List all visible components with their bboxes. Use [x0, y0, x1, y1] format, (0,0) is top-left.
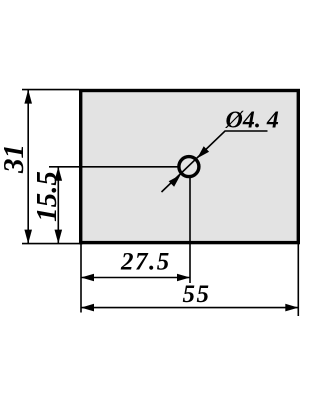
- extension line plate right, below: [297, 244, 299, 316]
- leader arrowhead NE (points to hole from upper right): [197, 146, 209, 158]
- svg-text:31: 31: [0, 144, 30, 174]
- extension line hole center vertical: [189, 176, 191, 283]
- dimension line 55 (horizontal): [81, 307, 298, 309]
- leader line for hole diameter: [162, 131, 268, 192]
- dimension line 31 (vertical, left): [27, 90, 29, 244]
- extension line top (left of plate, top edge): [22, 89, 79, 91]
- arrowhead 55 left: [81, 304, 94, 312]
- arrowhead 31 bottom: [24, 230, 32, 244]
- arrowhead 27.5 left: [81, 274, 94, 282]
- arrowhead 27.5 right: [177, 274, 190, 282]
- arrowhead 15.5 bottom: [55, 230, 63, 244]
- extension line hole center horizontal: [49, 166, 178, 168]
- extension line bottom (left of plate, bottom edge): [22, 243, 83, 245]
- arrowhead 15.5 top: [55, 167, 63, 181]
- leader arrowhead SW (points to hole from lower left): [169, 175, 181, 187]
- dimension line 27.5 (horizontal): [81, 277, 190, 279]
- hole (diameter 4.4): [179, 157, 199, 177]
- svg-text:55: 55: [183, 281, 211, 308]
- plate outline (55 x 31 plate): [81, 91, 299, 243]
- arrowhead 55 right: [285, 304, 298, 312]
- svg-text:Ø4. 4: Ø4. 4: [225, 108, 279, 134]
- svg-text:15.5: 15.5: [31, 171, 63, 222]
- dimension line 15.5 (vertical): [57, 167, 59, 244]
- arrowhead 31 top: [24, 90, 32, 104]
- svg-text:27.5: 27.5: [120, 249, 171, 276]
- extension line plate left, below: [80, 244, 82, 313]
